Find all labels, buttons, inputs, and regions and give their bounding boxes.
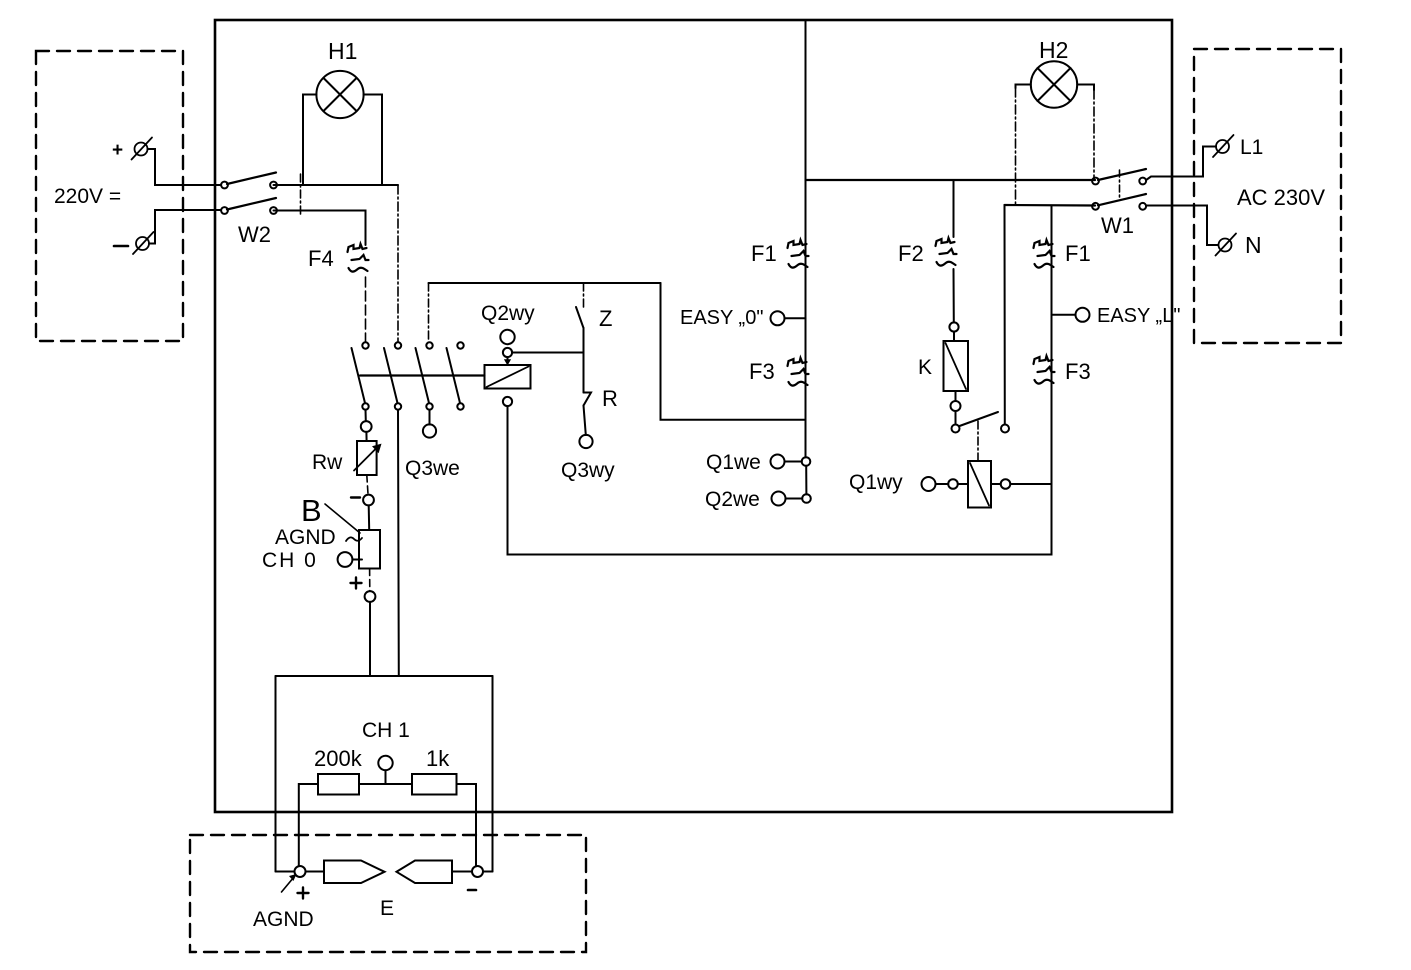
wire W2 upper to corner: [274, 184, 399, 186]
wire top rail y=283: [429, 282, 661, 284]
wire top bus down to F2: [953, 180, 955, 237]
resistor 1k: [412, 774, 457, 795]
mech link Q1wy relay (dash-dot): [977, 421, 979, 461]
right drop wire: [492, 676, 494, 872]
svg-text:K: K: [918, 356, 932, 379]
svg-text:CH 0: CH 0: [262, 549, 318, 572]
coil top pin: [503, 348, 512, 357]
svg-text:Q2wy: Q2wy: [481, 302, 535, 325]
wire Q1we: [785, 461, 802, 463]
wire contact up to N bus: [1004, 205, 1006, 425]
svg-text:F1: F1: [1065, 241, 1091, 266]
wire to CH0 box: [368, 505, 371, 530]
fuse F1 right squiggle: [1034, 240, 1055, 268]
N bus segment: [1005, 204, 1096, 207]
wire from top bus down to Z: [583, 283, 585, 308]
bottom sensor dashed box: [190, 835, 586, 952]
K bottom pin: [951, 401, 961, 411]
W1 lower pole right contact: [1139, 203, 1146, 210]
svg-text:Q3we: Q3we: [405, 457, 460, 480]
contact 1 top: [362, 342, 368, 348]
fuse F1 left squiggle: [788, 240, 809, 268]
svg-text:Z: Z: [599, 306, 612, 331]
wire coil bottom to long return: [508, 406, 1052, 554]
H2 right lead: [1077, 85, 1094, 91]
svg-text:W1: W1: [1101, 213, 1134, 238]
wire into AGND node: [276, 871, 295, 873]
wire right corner down: [661, 283, 806, 420]
wire F2 to K: [953, 269, 955, 323]
node Q1we small: [802, 457, 811, 466]
coil box Q1wy: [968, 461, 991, 508]
terminal CH1: [378, 756, 392, 770]
svg-text:Rw: Rw: [312, 451, 343, 474]
lamp H2 circle with cross: [1031, 61, 1077, 107]
contact 1 blade: [352, 348, 366, 403]
W1 lower pole left contact: [1092, 203, 1099, 210]
wire between resistors: [359, 783, 412, 785]
W2 lower blade: [227, 198, 276, 210]
wire from top border down: [805, 20, 807, 180]
svg-text:Q1wy: Q1wy: [849, 471, 903, 494]
wire Q2we: [786, 498, 803, 500]
minus tick: [351, 496, 360, 498]
contact 3 blade: [416, 348, 430, 403]
svg-text:L1: L1: [1240, 136, 1263, 159]
terminal Q3wy: [579, 435, 592, 448]
vertical chain wire: [805, 180, 807, 457]
potentiometer Rw: [357, 441, 377, 475]
K top pin: [949, 322, 958, 331]
top bus L side: [806, 179, 1096, 181]
wire to Rw: [365, 432, 367, 441]
wire Rw to minus node: [367, 475, 368, 494]
svg-text:CH 1: CH 1: [362, 719, 410, 742]
node circle plus: [365, 591, 376, 602]
contact 4 blade: [447, 348, 461, 403]
wire from + to W2 upper: [148, 149, 222, 185]
contact 1 bottom: [362, 403, 368, 409]
contact 4 bottom: [457, 403, 463, 409]
terminal + (circle with slash): [132, 138, 153, 160]
contact 2 bottom: [395, 403, 401, 409]
wire down to divider: [369, 602, 371, 676]
H2 left lead: [1016, 85, 1031, 89]
coil bottom pin: [503, 397, 512, 406]
K contact blade: [960, 412, 999, 426]
svg-text:Q1we: Q1we: [706, 451, 761, 474]
contact 4 top: [457, 342, 463, 348]
W1 upper pole left contact: [1092, 178, 1099, 185]
svg-text:F2: F2: [898, 241, 924, 266]
H1 right lead: [364, 95, 382, 186]
plus sign sensor: [298, 888, 309, 899]
plus sign lower: [351, 578, 362, 589]
terminal Q1wy: [922, 477, 936, 491]
W2 upper blade: [227, 173, 276, 185]
svg-text:220V =: 220V =: [54, 185, 121, 208]
B pointer line: [325, 504, 360, 533]
wire between Q1we and Q2we nodes: [805, 466, 807, 494]
terminal EASY L: [1076, 308, 1090, 322]
terminal EASY 0: [771, 311, 785, 325]
svg-text:EASY „0": EASY „0": [680, 307, 763, 329]
svg-text:F1: F1: [751, 241, 777, 266]
W1 upper blade: [1098, 169, 1146, 180]
wire contact3 to Q3we: [429, 410, 431, 425]
wire pin to chain: [991, 483, 1001, 485]
node right junction: [472, 866, 483, 877]
wire Z to node: [583, 328, 585, 393]
svg-text:EASY „L": EASY „L": [1097, 305, 1180, 327]
svg-text:AC 230V: AC 230V: [1237, 185, 1325, 210]
left drop wire: [275, 676, 277, 872]
wire right node up: [483, 871, 493, 873]
node Q2we small: [802, 494, 811, 503]
terminal N: [1216, 234, 1237, 256]
resistor 200k: [318, 774, 359, 795]
outer enclosure box: [215, 20, 1172, 812]
minus tick sensor: [468, 889, 476, 892]
wire corner down to relay contact 2 (faint in scan): [397, 185, 399, 342]
wire pin to box: [958, 483, 968, 485]
node AGND junction: [295, 866, 306, 877]
W2 upper pole left contact: [221, 182, 228, 189]
wire contact1 down: [365, 410, 367, 421]
wire rail left of 200k: [299, 784, 318, 866]
svg-text:N: N: [1245, 232, 1262, 258]
lamp H1 circle with cross: [316, 71, 363, 118]
coil box K: [944, 341, 969, 391]
contact bank linkage bar to coil: [360, 374, 485, 376]
node circle above Rw: [361, 421, 372, 432]
wire node to sensor: [306, 871, 325, 873]
coil top stub: [507, 357, 509, 365]
Q1wy left pin: [948, 479, 958, 489]
wire K to contact: [955, 391, 957, 401]
K contact right node: [1001, 425, 1009, 433]
terminal Q1we: [771, 455, 785, 469]
wire sensor to right node: [452, 871, 472, 873]
terminal Q2we: [772, 492, 786, 506]
wire EASY0 to chain: [785, 317, 806, 319]
contact 3 bottom: [426, 403, 432, 409]
contact 2 blade: [384, 348, 398, 403]
svg-text:F3: F3: [1065, 359, 1091, 384]
wire rail right of 1k: [457, 784, 477, 866]
svg-text:1k: 1k: [426, 746, 450, 771]
wire EASYL to chain: [1052, 314, 1076, 316]
svg-text:AGND: AGND: [275, 526, 336, 549]
node circle minus: [363, 495, 374, 506]
220V source dashed box: [36, 51, 183, 341]
wire from - to W2 lower: [149, 210, 221, 244]
W2 lower pole right contact: [270, 207, 277, 214]
AGND hook squiggle: [346, 537, 362, 541]
svg-text:R: R: [602, 386, 618, 411]
wire W1 lower to N: [1146, 206, 1218, 246]
wire down to contact 3 (dash-dot in scan): [428, 283, 430, 342]
H1 left lead: [303, 95, 316, 186]
AC 230V source dashed box: [1194, 49, 1341, 343]
svg-text:H2: H2: [1039, 37, 1068, 63]
svg-text:F4: F4: [308, 246, 334, 271]
svg-text:F3: F3: [749, 359, 775, 384]
terminal CH0: [338, 552, 353, 567]
contact Z blade: [576, 307, 584, 328]
wire CH0 box down: [369, 569, 371, 592]
coil box Q2: [485, 365, 531, 389]
fuse F2 squiggle: [936, 238, 957, 266]
wire W1 upper to L1: [1146, 147, 1216, 181]
W1 upper pole right contact: [1139, 178, 1146, 185]
W2 upper pole right contact: [270, 182, 277, 189]
sensor E left half (pentagon): [324, 861, 385, 884]
svg-text:E: E: [380, 897, 394, 920]
svg-text:200k: 200k: [314, 746, 363, 771]
divider top rail: [276, 675, 493, 677]
terminal Q2wy: [500, 330, 514, 344]
minus sign: [114, 245, 128, 248]
terminal - (circle with slash): [133, 232, 154, 254]
sensor E right half (pentagon): [397, 861, 453, 884]
W2 mechanical link (dash-dot): [300, 174, 302, 216]
fuse F3 right squiggle: [1034, 356, 1055, 384]
svg-text:H1: H1: [328, 38, 357, 64]
fuse F4 squiggle: [348, 244, 369, 272]
wire pin to box: [953, 332, 955, 341]
W2 lower pole left contact: [221, 207, 228, 214]
terminal Q3we: [423, 424, 436, 437]
K contact left node: [952, 425, 960, 433]
wire to left pin: [936, 483, 949, 485]
W1 mechanical link (dash-dot): [1119, 170, 1121, 200]
contact R (NC): [584, 393, 592, 406]
box CH0 input: [359, 530, 380, 569]
AGND arrow pointer: [282, 877, 295, 892]
Q1wy right pin: [1001, 479, 1011, 489]
terminal L1: [1213, 135, 1234, 157]
wire R to Q3wy: [584, 406, 586, 436]
svg-text:W2: W2: [238, 222, 271, 247]
stub CH0 to box: [352, 559, 362, 561]
wire W2 lower to F4: [274, 211, 366, 246]
contact 2 top: [395, 342, 401, 348]
svg-text:Q2we: Q2we: [705, 488, 760, 511]
wire contact2 down to rail: [397, 410, 400, 676]
wire coil top pin to Z/R node: [512, 352, 583, 354]
stub CH1: [385, 770, 387, 784]
svg-text:AGND: AGND: [253, 908, 314, 931]
wire F4 to contact 1: [365, 277, 367, 342]
vertical chain wire right: [1051, 206, 1053, 555]
svg-text:+: +: [112, 140, 123, 161]
W1 lower blade: [1098, 194, 1146, 205]
contact 3 top: [426, 342, 432, 348]
svg-text:Q3wy: Q3wy: [561, 459, 615, 482]
fuse F3 left squiggle: [788, 358, 809, 386]
svg-text:B: B: [301, 493, 322, 528]
